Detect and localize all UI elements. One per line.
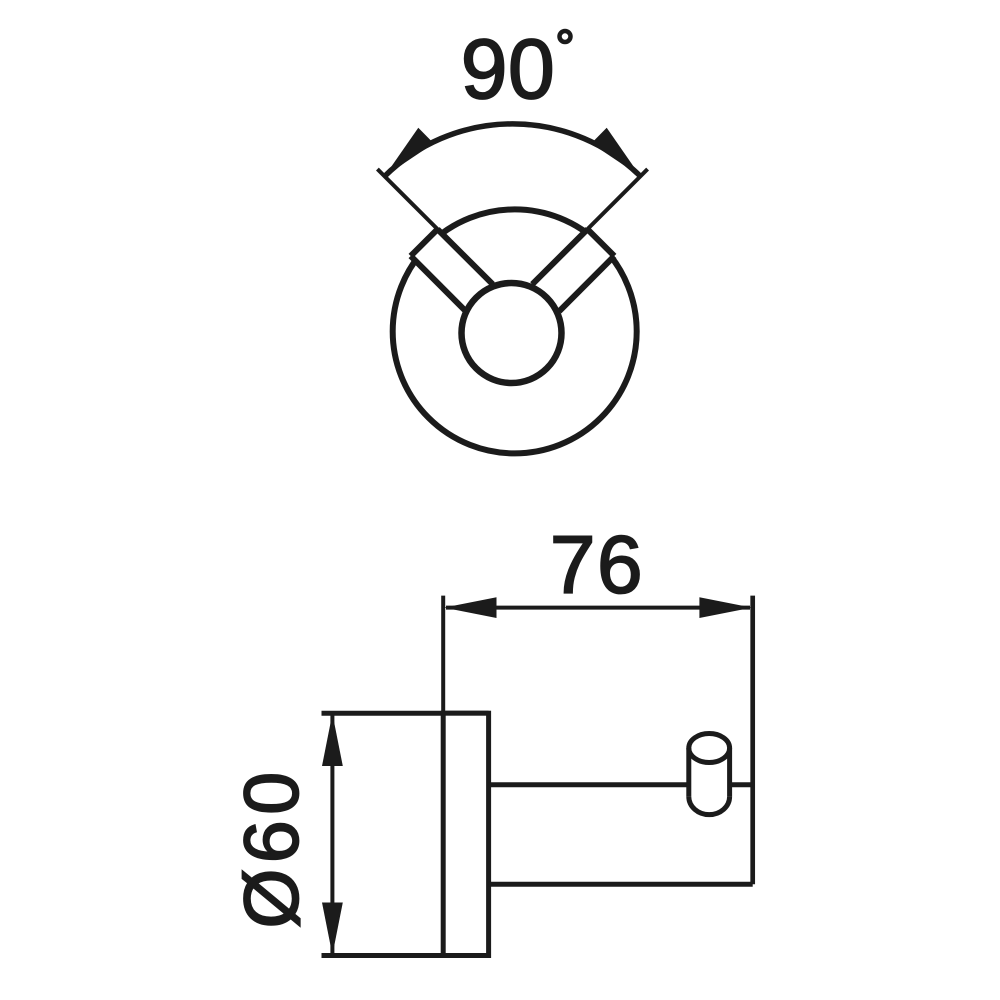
- left arm outer edge: [411, 256, 466, 311]
- extension line left (above plate): [441, 596, 445, 714]
- left arm centre extension line: [377, 169, 492, 284]
- left arm band (white fill covering circle): [411, 229, 493, 311]
- peg left side: [686, 748, 691, 797]
- dia 60 dimension line: [330, 715, 334, 954]
- 76 dim arrowhead right: [699, 597, 752, 618]
- svg-text:Ø60: Ø60: [229, 766, 315, 928]
- arc arrowhead right: [591, 128, 640, 177]
- right arm centre extension line: [532, 169, 647, 284]
- right arm band (white fill covering circle): [532, 229, 614, 311]
- wall plate rectangle: [443, 713, 488, 955]
- hook arm bottom edge: [489, 882, 753, 887]
- side view: 76 dimension line: [446, 606, 750, 610]
- peg top ellipse: [689, 734, 730, 763]
- svg-text:76: 76: [550, 520, 644, 611]
- hook arm top edge: [489, 782, 753, 787]
- peg body white fill: [689, 734, 730, 815]
- plate top edge with extension to dim: [322, 711, 489, 716]
- peg right side: [727, 748, 732, 797]
- svg-text:90: 90: [461, 22, 555, 116]
- right arm inner edge: [532, 229, 587, 284]
- top view: small hub circle: [462, 283, 562, 383]
- top view: big mounting plate circle: [393, 209, 637, 453]
- peg bottom cap: [689, 797, 730, 815]
- 76 dim arrowhead left: [444, 597, 497, 618]
- dia60 arrowhead bottom: [322, 903, 343, 956]
- dia60 arrowhead top: [322, 714, 343, 767]
- plate bottom edge with extension to dim: [322, 953, 489, 958]
- left arm inner edge: [438, 229, 493, 284]
- 90 degree dimension arc: [385, 124, 641, 176]
- degree symbol: [560, 31, 571, 42]
- arc arrowhead left: [385, 128, 434, 177]
- right arm end cap: [588, 229, 615, 256]
- right arm outer edge: [559, 256, 614, 311]
- extension line right: [750, 596, 755, 885]
- left arm end cap: [411, 229, 438, 256]
